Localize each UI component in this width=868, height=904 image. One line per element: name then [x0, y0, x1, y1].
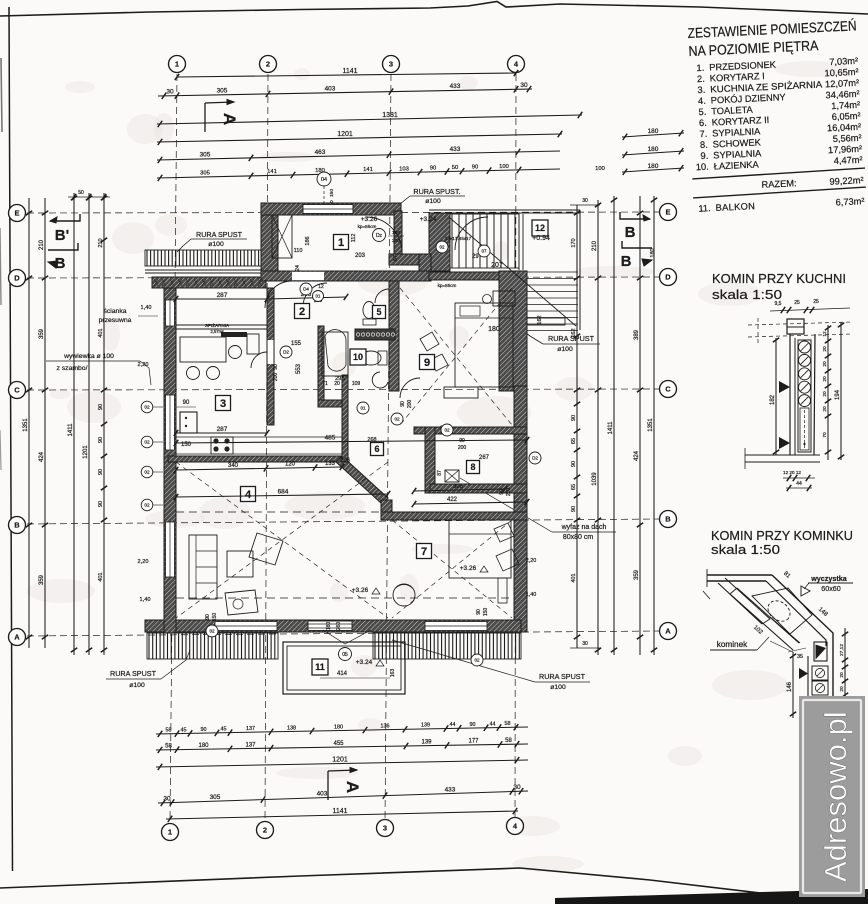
- svg-text:2.: 2.: [697, 74, 705, 84]
- svg-text:27,12: 27,12: [839, 644, 845, 656]
- svg-text:200: 200: [392, 238, 400, 244]
- svg-text:30: 30: [520, 82, 528, 89]
- svg-text:20: 20: [822, 346, 828, 352]
- svg-text:3: 3: [220, 398, 226, 410]
- svg-text:287: 287: [217, 426, 228, 433]
- svg-text:3: 3: [389, 60, 393, 69]
- svg-text:340: 340: [228, 463, 239, 469]
- svg-text:D2: D2: [283, 350, 289, 355]
- svg-text:139: 139: [421, 739, 432, 745]
- svg-text:A: A: [665, 627, 671, 636]
- svg-text:401: 401: [98, 328, 104, 337]
- svg-text:1141: 1141: [342, 68, 357, 75]
- svg-text:12: 12: [822, 331, 828, 337]
- svg-text:30: 30: [513, 784, 521, 791]
- svg-text:RURA SPUST: RURA SPUST: [539, 672, 586, 681]
- svg-text:20: 20: [822, 391, 828, 397]
- svg-text:2,20: 2,20: [138, 559, 149, 565]
- svg-text:90: 90: [430, 166, 436, 172]
- svg-text:44: 44: [490, 721, 496, 727]
- svg-text:+3.26: +3.26: [361, 216, 378, 223]
- svg-text:120: 120: [285, 462, 296, 468]
- svg-text:306: 306: [453, 484, 464, 490]
- svg-text:RAZEM:: RAZEM:: [761, 178, 797, 190]
- svg-text:1351: 1351: [648, 418, 654, 432]
- svg-text:90: 90: [201, 727, 207, 733]
- svg-text:20: 20: [822, 376, 828, 382]
- svg-text:146: 146: [787, 681, 793, 692]
- svg-text:1039: 1039: [592, 472, 598, 486]
- svg-text:180: 180: [488, 326, 500, 333]
- svg-text:D2: D2: [532, 456, 538, 461]
- svg-text:186: 186: [305, 236, 311, 245]
- svg-text:A: A: [343, 781, 362, 793]
- svg-text:150: 150: [483, 608, 489, 617]
- svg-text:9: 9: [424, 357, 430, 369]
- svg-text:1201: 1201: [332, 756, 348, 763]
- svg-text:25: 25: [813, 299, 819, 305]
- svg-text:180: 180: [648, 146, 659, 153]
- svg-text:401: 401: [98, 572, 104, 581]
- svg-text:B: B: [665, 515, 671, 524]
- svg-text:141: 141: [267, 169, 277, 175]
- svg-text:150: 150: [329, 189, 335, 197]
- svg-text:ø100: ø100: [129, 682, 145, 689]
- svg-text:210: 210: [592, 240, 598, 251]
- svg-text:30: 30: [582, 198, 588, 204]
- svg-text:1201: 1201: [337, 131, 353, 138]
- svg-text:ŁAZIENKA: ŁAZIENKA: [714, 159, 760, 171]
- svg-text:ø100: ø100: [425, 198, 441, 205]
- svg-text:90: 90: [459, 438, 465, 444]
- svg-text:177: 177: [468, 739, 479, 745]
- svg-text:C: C: [14, 386, 20, 395]
- svg-text:kominek: kominek: [717, 640, 748, 649]
- svg-text:4,47m²: 4,47m²: [833, 155, 862, 166]
- svg-text:403: 403: [317, 790, 328, 797]
- svg-text:wyfaz na dach: wyfaz na dach: [561, 524, 607, 531]
- svg-text:B': B': [55, 227, 69, 244]
- svg-text:KOMIN PRZY KOMINKU: KOMIN PRZY KOMINKU: [711, 528, 853, 543]
- svg-text:180: 180: [648, 128, 659, 135]
- svg-text:401: 401: [571, 573, 577, 582]
- svg-text:200: 200: [506, 488, 512, 497]
- svg-text:203: 203: [355, 253, 366, 259]
- svg-text:2,20: 2,20: [138, 362, 149, 368]
- svg-text:414: 414: [337, 671, 348, 677]
- svg-text:skala 1:50: skala 1:50: [711, 542, 780, 557]
- svg-text:04: 04: [321, 177, 327, 183]
- svg-text:02: 02: [444, 428, 450, 433]
- svg-text:12: 12: [535, 223, 545, 233]
- svg-text:34,46m²: 34,46m²: [825, 89, 860, 101]
- svg-text:2: 2: [266, 60, 270, 69]
- svg-text:90: 90: [499, 489, 505, 495]
- svg-text:433: 433: [450, 146, 461, 153]
- svg-text:463: 463: [315, 149, 326, 156]
- svg-text:200: 200: [273, 373, 279, 382]
- svg-text:2: 2: [299, 306, 305, 318]
- svg-text:109: 109: [352, 381, 361, 387]
- svg-text:422: 422: [447, 497, 458, 503]
- svg-text:7: 7: [421, 546, 427, 558]
- svg-text:424: 424: [39, 451, 45, 462]
- svg-text:287: 287: [217, 292, 228, 299]
- svg-text:133: 133: [325, 461, 336, 467]
- svg-text:90: 90: [98, 469, 104, 475]
- svg-text:6.: 6.: [699, 118, 707, 128]
- svg-text:5.: 5.: [698, 107, 706, 117]
- svg-text:BALKON: BALKON: [715, 201, 755, 213]
- svg-text:1,40: 1,40: [526, 592, 537, 598]
- svg-text:6: 6: [374, 444, 379, 454]
- svg-text:180: 180: [334, 724, 343, 730]
- svg-text:207: 207: [491, 262, 503, 269]
- svg-text:305: 305: [217, 88, 228, 95]
- svg-text:D: D: [665, 273, 671, 282]
- svg-text:Adresowo.pl: Adresowo.pl: [818, 711, 853, 882]
- svg-text:44: 44: [796, 481, 802, 487]
- svg-text:02: 02: [394, 417, 400, 422]
- svg-text:170: 170: [571, 238, 577, 247]
- svg-text:210: 210: [39, 239, 45, 250]
- svg-text:11: 11: [315, 662, 325, 672]
- svg-text:RURA SPUST: RURA SPUST: [548, 334, 595, 343]
- svg-text:A: A: [220, 113, 239, 125]
- svg-text:1,40: 1,40: [141, 305, 152, 311]
- svg-text:29Δ: 29Δ: [335, 376, 345, 382]
- svg-text:02: 02: [144, 470, 150, 476]
- svg-text:02: 02: [209, 629, 215, 634]
- svg-text:SPIŻARNIA: SPIŻARNIA: [205, 322, 230, 328]
- svg-text:+3.24: +3.24: [420, 216, 437, 223]
- svg-text:1: 1: [175, 60, 179, 69]
- svg-text:103: 103: [399, 166, 409, 172]
- svg-text:wyczystka: wyczystka: [810, 574, 848, 583]
- svg-text:9.: 9.: [700, 151, 708, 161]
- svg-text:180: 180: [326, 622, 332, 631]
- svg-text:1: 1: [168, 828, 172, 837]
- svg-text:11.: 11.: [698, 203, 711, 214]
- svg-text:90: 90: [273, 364, 279, 370]
- svg-text:58: 58: [505, 721, 511, 727]
- svg-text:ø100: ø100: [557, 346, 573, 353]
- svg-text:RURA SPUST.: RURA SPUST.: [413, 187, 460, 196]
- svg-text:58: 58: [505, 738, 512, 744]
- svg-text:13x17.85x17: 13x17.85x17: [445, 236, 472, 241]
- svg-text:02: 02: [144, 503, 150, 509]
- svg-text:E: E: [665, 208, 670, 217]
- svg-text:C: C: [665, 385, 671, 394]
- svg-text:10: 10: [353, 352, 363, 362]
- svg-text:+3.26: +3.26: [460, 565, 477, 572]
- svg-text:1,74m²: 1,74m²: [831, 100, 860, 111]
- svg-text:65: 65: [571, 484, 577, 490]
- svg-text:90: 90: [98, 437, 104, 443]
- svg-text:20: 20: [822, 361, 828, 367]
- svg-text:30: 30: [163, 796, 171, 803]
- svg-text:2,57m²: 2,57m²: [210, 329, 224, 334]
- svg-text:3: 3: [383, 824, 387, 833]
- svg-text:9,5: 9,5: [775, 301, 782, 307]
- svg-text:4: 4: [245, 489, 252, 501]
- svg-text:90: 90: [205, 614, 211, 620]
- svg-text:268: 268: [367, 437, 376, 443]
- svg-text:8.: 8.: [700, 140, 708, 150]
- svg-text:02: 02: [474, 658, 480, 663]
- svg-text:155: 155: [291, 341, 302, 347]
- svg-text:90: 90: [470, 722, 476, 728]
- svg-text:20: 20: [839, 686, 845, 692]
- svg-text:180: 180: [198, 743, 209, 749]
- svg-text:B: B: [14, 521, 20, 530]
- svg-text:+3.24: +3.24: [356, 659, 373, 666]
- svg-text:67: 67: [393, 255, 399, 261]
- svg-text:90: 90: [571, 461, 577, 467]
- svg-text:141: 141: [363, 167, 373, 173]
- svg-text:553: 553: [296, 363, 302, 374]
- svg-text:424: 424: [634, 450, 640, 461]
- svg-text:433: 433: [445, 786, 456, 793]
- svg-text:200: 200: [458, 445, 467, 451]
- svg-text:16,04m²: 16,04m²: [827, 122, 862, 134]
- svg-text:10.: 10.: [696, 162, 709, 173]
- svg-text:1351: 1351: [23, 418, 29, 432]
- svg-text:D4: D4: [303, 287, 309, 292]
- svg-text:przesuwna: przesuwna: [99, 317, 132, 324]
- svg-text:1,40: 1,40: [140, 597, 151, 603]
- svg-text:180: 180: [648, 163, 659, 170]
- svg-text:z szambo/: z szambo/: [57, 365, 88, 372]
- svg-text:12: 12: [318, 284, 324, 290]
- svg-text:45: 45: [181, 727, 187, 733]
- svg-text:1.: 1.: [696, 63, 704, 73]
- svg-text:58: 58: [166, 728, 172, 734]
- svg-text:1: 1: [338, 237, 344, 249]
- svg-text:162: 162: [537, 315, 543, 324]
- svg-text:5: 5: [376, 307, 381, 317]
- svg-text:359: 359: [39, 574, 45, 585]
- svg-text:87: 87: [437, 470, 443, 476]
- svg-text:50: 50: [452, 165, 458, 171]
- svg-text:3.: 3.: [697, 85, 705, 95]
- svg-text:403: 403: [325, 86, 336, 93]
- svg-text:359: 359: [634, 569, 640, 580]
- svg-text:01: 01: [316, 294, 321, 299]
- svg-text:07: 07: [481, 249, 487, 254]
- svg-text:+0.94: +0.94: [532, 235, 550, 242]
- svg-text:194: 194: [835, 389, 841, 400]
- svg-text:90: 90: [472, 165, 478, 171]
- svg-text:02: 02: [144, 405, 150, 411]
- svg-text:1141: 1141: [332, 808, 347, 815]
- svg-text:60x60: 60x60: [821, 584, 841, 593]
- svg-text:44: 44: [450, 722, 456, 728]
- svg-text:10,65m²: 10,65m²: [824, 67, 859, 79]
- svg-text:305: 305: [200, 171, 210, 177]
- svg-text:90: 90: [400, 401, 406, 407]
- svg-text:+3.26: +3.26: [352, 587, 369, 594]
- svg-text:455: 455: [333, 741, 344, 747]
- svg-text:2: 2: [263, 826, 267, 835]
- svg-text:1411: 1411: [68, 423, 74, 437]
- svg-text:02: 02: [439, 245, 445, 250]
- svg-text:B: B: [621, 253, 632, 270]
- svg-text:8: 8: [470, 462, 475, 472]
- svg-text:ø100: ø100: [208, 241, 224, 248]
- svg-text:110: 110: [294, 248, 303, 254]
- svg-text:6,73m²: 6,73m²: [835, 196, 864, 207]
- svg-text:305: 305: [210, 794, 221, 801]
- svg-text:D: D: [14, 274, 20, 283]
- svg-text:kp=85cm: kp=85cm: [438, 283, 457, 288]
- svg-text:17,96m²: 17,96m²: [828, 144, 863, 156]
- svg-text:4.: 4.: [698, 96, 706, 106]
- svg-text:359: 359: [39, 328, 45, 339]
- svg-text:71: 71: [322, 381, 328, 387]
- svg-text:7.: 7.: [699, 129, 707, 139]
- svg-text:206: 206: [340, 458, 351, 464]
- svg-text:180: 180: [650, 248, 656, 257]
- svg-text:01: 01: [360, 406, 366, 411]
- svg-text:182: 182: [770, 394, 776, 405]
- svg-text:100: 100: [499, 164, 509, 170]
- svg-text:1201: 1201: [83, 445, 89, 459]
- svg-text:24: 24: [295, 265, 301, 271]
- svg-text:163: 163: [390, 669, 396, 678]
- svg-text:137: 137: [246, 726, 255, 732]
- svg-text:KOMIN PRZY KUCHNI: KOMIN PRZY KUCHNI: [712, 271, 846, 286]
- svg-text:TOALETA: TOALETA: [711, 105, 754, 117]
- svg-text:100: 100: [595, 166, 605, 172]
- svg-text:305: 305: [200, 152, 211, 159]
- svg-text:200: 200: [407, 400, 413, 409]
- svg-text:45: 45: [221, 727, 227, 733]
- svg-text:138: 138: [287, 725, 296, 731]
- svg-text:20: 20: [839, 672, 845, 678]
- svg-text:1381: 1381: [382, 112, 398, 119]
- svg-text:12,07m²: 12,07m²: [825, 78, 860, 90]
- svg-text:112: 112: [351, 234, 357, 243]
- svg-text:6,05m²: 6,05m²: [831, 111, 860, 122]
- svg-text:99,22m²: 99,22m²: [829, 175, 864, 187]
- svg-text:267: 267: [479, 455, 490, 461]
- svg-text:433: 433: [450, 83, 461, 90]
- svg-text:35: 35: [797, 654, 803, 660]
- svg-text:B: B: [625, 224, 636, 241]
- svg-text:RURA SPUST: RURA SPUST: [110, 669, 157, 678]
- svg-text:50: 50: [78, 190, 84, 196]
- svg-text:136: 136: [381, 723, 390, 729]
- svg-text:485: 485: [325, 434, 336, 441]
- svg-text:137: 137: [245, 742, 256, 748]
- svg-text:684: 684: [278, 488, 289, 495]
- svg-text:Dz: Dz: [376, 233, 383, 239]
- svg-text:30: 30: [582, 641, 588, 647]
- svg-text:7,03m²: 7,03m²: [829, 56, 858, 67]
- svg-text:90: 90: [98, 404, 104, 410]
- svg-text:90: 90: [98, 501, 104, 507]
- svg-text:90: 90: [476, 609, 482, 615]
- svg-text:A: A: [14, 633, 20, 642]
- svg-text:150: 150: [212, 613, 218, 622]
- svg-text:65: 65: [571, 438, 577, 444]
- svg-text:5,56m²: 5,56m²: [832, 133, 861, 144]
- svg-text:90: 90: [571, 506, 577, 512]
- svg-text:kp=85cm: kp=85cm: [358, 224, 377, 229]
- svg-text:30: 30: [166, 89, 174, 96]
- svg-text:58: 58: [165, 744, 172, 750]
- svg-text:260: 260: [336, 622, 342, 631]
- svg-text:20: 20: [822, 406, 828, 412]
- svg-text:12 20 12: 12 20 12: [783, 470, 801, 475]
- svg-text:139: 139: [421, 723, 430, 729]
- svg-text:skala 1:50: skala 1:50: [712, 287, 782, 302]
- svg-text:ścianka: ścianka: [103, 308, 126, 315]
- svg-text:100: 100: [392, 230, 400, 236]
- svg-text:ø100: ø100: [550, 684, 566, 691]
- svg-text:80x80 cm: 80x80 cm: [563, 534, 594, 541]
- svg-text:RURA SPUST: RURA SPUST: [196, 230, 243, 239]
- svg-text:wywiewka ø 100: wywiewka ø 100: [63, 353, 114, 360]
- svg-text:90: 90: [571, 415, 577, 421]
- svg-text:05: 05: [342, 652, 348, 658]
- svg-text:E: E: [14, 209, 19, 218]
- svg-text:02: 02: [144, 440, 150, 446]
- svg-text:210: 210: [98, 238, 104, 247]
- svg-text:70: 70: [822, 432, 828, 438]
- svg-text:2,20: 2,20: [526, 558, 537, 564]
- svg-text:25: 25: [794, 300, 800, 306]
- svg-text:389: 389: [634, 329, 640, 340]
- svg-text:90: 90: [183, 400, 190, 406]
- svg-text:1411: 1411: [608, 421, 614, 435]
